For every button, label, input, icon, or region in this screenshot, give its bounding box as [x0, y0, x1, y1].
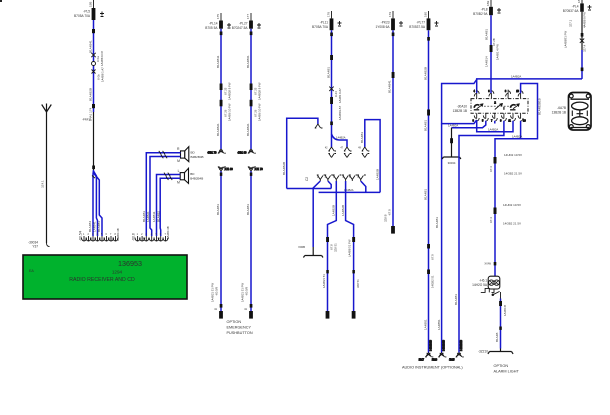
inline connector lamp column a: [494, 157, 497, 164]
svg-text:X71 00: X71 00: [225, 167, 234, 171]
svg-text:1A4B4 4B: 1A4B4 4B: [116, 228, 120, 241]
svg-text:13B2B 1B: 13B2B 1B: [552, 111, 566, 115]
node 30034 antenna pin: [28, 241, 49, 249]
svg-text:1A4B6 10 PW: 1A4B6 10 PW: [257, 103, 261, 121]
inline connector column 6 b: [427, 270, 430, 275]
svg-text:OPTION: OPTION: [227, 320, 242, 324]
connector PL27 top of column 3: [232, 13, 261, 30]
inline connector speaker L wires: [164, 173, 172, 180]
wire jumper to pin 347: [332, 134, 348, 147]
svg-text:14GB2 21 5V: 14GB2 21 5V: [504, 172, 522, 176]
svg-text:B1A4B1: B1A4B1: [246, 204, 250, 215]
tick column 2: [220, 32, 223, 36]
speaker L: [177, 168, 203, 184]
svg-text:B1A4B2: B1A4B2: [156, 211, 160, 222]
antenna W1: [42, 104, 52, 113]
connector hook upper column 2: [207, 149, 225, 155]
inline connector column 7: [490, 45, 493, 52]
inline connector 2 column 1: [92, 104, 95, 108]
inline connector pin3 branch: [326, 237, 329, 242]
inline connector column 1: [92, 29, 95, 33]
svg-text:14B2B1B: 14B2B1B: [441, 340, 445, 351]
svg-text:1A4B21 51 PW: 1A4B21 51 PW: [240, 283, 244, 302]
inline connector speaker R wires: [159, 151, 167, 158]
wire pin6 to horizontal2: [361, 181, 366, 192]
wire pin4 branch: [346, 181, 354, 311]
svg-text:B4B2B4B: B4B2B4B: [191, 155, 204, 159]
svg-text:B1A4B1: B1A4B1: [423, 120, 427, 131]
svg-text:B4B2B4B: B4B2B4B: [190, 177, 203, 181]
tick 2 column 4: [330, 122, 333, 126]
svg-text:1A4B21 51: 1A4B21 51: [322, 274, 326, 288]
svg-text:B1A4B41: B1A4B41: [89, 40, 93, 53]
ground 3Z210: [478, 349, 513, 354]
relay upper pin 4: [474, 90, 480, 99]
svg-text:1A4B28 9 PW: 1A4B28 9 PW: [227, 82, 231, 100]
junction tick column 1: [92, 166, 95, 170]
svg-text:1A4B4 4B: 1A4B4 4B: [166, 226, 170, 239]
svg-text:-PL14: -PL14: [209, 22, 218, 26]
svg-text:1A4B2B: 1A4B2B: [332, 205, 336, 216]
end connector pin3 branch: [326, 311, 330, 319]
wire column 4: [331, 30, 333, 147]
svg-text:-X0.8: -X0.8: [132, 233, 136, 241]
svg-text:X7.3: X7.3: [489, 166, 493, 172]
tick column 3: [250, 32, 253, 36]
svg-text:JB17: JB17: [419, 359, 425, 362]
ground 30034 right: [442, 157, 461, 165]
svg-text:-PL11: -PL11: [320, 21, 328, 25]
svg-text:L: L: [178, 169, 180, 173]
svg-text:B1A4B1: B1A4B1: [360, 132, 364, 143]
svg-text:C2: C2: [305, 177, 309, 181]
tick fan wires: [92, 176, 99, 180]
end connector column 5: [391, 226, 395, 234]
svg-text:1A4B19 A7: 1A4B19 A7: [338, 106, 342, 120]
svg-text:1A4B21: 1A4B21: [146, 211, 150, 222]
svg-text:X7.4: X7.4: [489, 217, 493, 223]
wire horizontal 1: [287, 188, 332, 190]
svg-text:1B7: 1B7: [577, 0, 581, 3]
svg-text:3Z7.4: 3Z7.4: [582, 44, 586, 52]
svg-text:3Z7.1: 3Z7.1: [568, 19, 572, 27]
wire column 1 upper: [93, 20, 95, 112]
inline connector column 6 top: [427, 110, 430, 116]
relay switch right: [510, 104, 519, 110]
lamp H6.1: [472, 276, 500, 289]
inline connector column 5: [392, 72, 395, 78]
wire column 5: [392, 30, 394, 226]
svg-text:B1A4B2B1B: B1A4B2B1B: [538, 98, 542, 115]
connector hook pair right: [362, 147, 370, 158]
svg-text:179: 179: [388, 12, 392, 17]
svg-text:14B2B1B: 14B2B1B: [459, 340, 463, 351]
svg-text:136953: 136953: [118, 259, 142, 268]
car icon 6A7B: [552, 93, 591, 131]
svg-text:1A4B2B: 1A4B2B: [341, 205, 345, 216]
wire column 1 lower black: [93, 112, 95, 170]
inline connector column 4 b: [330, 97, 333, 104]
svg-text:EA: EA: [29, 269, 34, 273]
wire right inverted U: [365, 120, 380, 193]
svg-text:1A4B11: 1A4B11: [152, 211, 156, 222]
wire speaker R -: [150, 157, 181, 237]
svg-text:1A4B4 B: 1A4B4 B: [503, 305, 507, 316]
connector hook upper column 3: [237, 149, 255, 155]
tick below hook column 3: [250, 173, 253, 176]
splice X column 1: [91, 53, 95, 57]
wire column 2 lower: [220, 171, 222, 311]
radio receiver box 136953: [23, 255, 187, 299]
caption option emergency pushbutton: [227, 320, 253, 335]
relay lower pin 3: [473, 113, 480, 122]
svg-text:180: 180: [424, 12, 428, 17]
svg-text:1A4B8 9 F8: 1A4B8 9 F8: [100, 51, 104, 66]
connector hook pair jumper: [344, 147, 352, 158]
wire column 8 lower blue: [581, 50, 583, 79]
svg-text:3Z8 51: 3Z8 51: [356, 279, 360, 288]
svg-text:OPTION: OPTION: [494, 364, 509, 368]
svg-text:B705A 70A: B705A 70A: [74, 14, 91, 18]
caption option alarm light: [494, 364, 520, 374]
connector row X1 pins: [317, 175, 366, 181]
svg-text:-6A7B: -6A7B: [557, 106, 566, 110]
svg-text:B1A4B11: B1A4B11: [216, 55, 220, 68]
svg-text:1B2: 1B2: [486, 0, 490, 6]
svg-text:B70537.5A: B70537.5A: [409, 25, 426, 29]
svg-text:B1A4B1: B1A4B1: [142, 211, 146, 222]
svg-text:1A4B1 9 A7: 1A4B1 9 A7: [338, 88, 342, 103]
hook audio wire 1: [419, 340, 434, 362]
wire column 3 lower: [250, 171, 252, 311]
svg-text:14UD2 10.5V: 14UD2 10.5V: [503, 203, 521, 207]
svg-text:4A4B8 9 PW: 4A4B8 9 PW: [582, 12, 586, 28]
svg-text:-X01 00: -X01 00: [237, 151, 247, 155]
wire column 2 upper: [220, 29, 222, 149]
svg-text:1A4B28 9 PW: 1A4B28 9 PW: [257, 82, 261, 100]
svg-text:1A4B21 51 PW: 1A4B21 51 PW: [210, 283, 214, 302]
corner mark: [0, 0, 2, 2]
speaker R: [177, 147, 213, 163]
relay linkage dash: [484, 105, 512, 107]
svg-text:-PRF1: -PRF1: [82, 118, 91, 122]
wire fan 2 to pin 4: [94, 171, 98, 236]
svg-text:-PL77: -PL77: [416, 21, 425, 25]
svg-text:14H2O 5A: 14H2O 5A: [472, 283, 488, 287]
svg-text:14UD2 10.5V: 14UD2 10.5V: [504, 153, 522, 157]
inline connector column 4 a: [330, 55, 333, 60]
wire left loop: [442, 80, 477, 124]
svg-text:13B2B 1B: 13B2B 1B: [453, 109, 467, 113]
splice X column 8: [580, 39, 584, 43]
svg-text:X7.9: X7.9: [431, 254, 435, 260]
relay upper pin 10: [516, 90, 523, 99]
svg-text:175: 175: [216, 14, 220, 19]
svg-text:-PL27: -PL27: [239, 22, 248, 26]
inline connector column 6 a: [427, 244, 430, 249]
ground 30034 center: [298, 245, 323, 258]
relay upper pin 8: [505, 90, 511, 99]
svg-text:1A4B6 10 PW: 1A4B6 10 PW: [227, 103, 231, 121]
wire fan 3 to pin 5: [94, 173, 103, 236]
svg-text:B1A4B21: B1A4B21: [246, 123, 250, 136]
svg-text:B70B2 9A: B70B2 9A: [473, 12, 488, 16]
svg-text:RADIO RECEIVER AND CD: RADIO RECEIVER AND CD: [69, 277, 135, 283]
svg-text:-H6.1: -H6.1: [479, 279, 487, 283]
end connector column 3: [249, 311, 253, 319]
svg-text:B1A4B1: B1A4B1: [97, 221, 101, 232]
tick 2 column 3: [250, 304, 253, 308]
svg-text:B1A4B2B: B1A4B2B: [89, 88, 93, 101]
connector hook lower column 2: [218, 167, 233, 171]
svg-text:B1A4B1: B1A4B1: [424, 189, 428, 200]
svg-text:1A4B2B: 1A4B2B: [375, 169, 379, 180]
tick 2 column 2: [220, 304, 223, 308]
svg-text:XX/W: XX/W: [484, 262, 491, 266]
svg-text:-3Z210: -3Z210: [478, 350, 488, 354]
svg-text:B705A 70A: B705A 70A: [312, 25, 329, 29]
inline connector lamp ground wire: [499, 301, 502, 306]
svg-text:M: M: [177, 181, 180, 185]
svg-text:1A4B41: 1A4B41: [92, 221, 96, 232]
svg-text:X00B: X00B: [298, 245, 305, 249]
relay block 30A10 dashed: [471, 99, 528, 114]
tick pin4 branch: [352, 270, 355, 273]
svg-text:-PL8: -PL8: [481, 8, 488, 12]
wire horizontal 2: [319, 191, 381, 193]
svg-text:1B5: 1B5: [89, 1, 93, 7]
svg-text:B1A4B21: B1A4B21: [216, 123, 220, 136]
svg-text:-X0.5/9: -X0.5/9: [244, 287, 248, 296]
tick below hook column 2: [220, 173, 223, 176]
svg-text:1A4B8 1 A7: 1A4B8 1 A7: [101, 67, 105, 82]
svg-text:B1A4B1: B1A4B1: [216, 204, 220, 215]
relay switch middle: [494, 101, 504, 110]
svg-text:-X0.5/4: -X0.5/4: [79, 230, 83, 241]
svg-text:X71 70: X71 70: [255, 167, 264, 171]
svg-text:B1A4B1: B1A4B1: [454, 294, 458, 305]
wire pin5 to ground: [452, 121, 486, 128]
wire column 9 continuation: [441, 124, 443, 353]
relay lower pin 11: [508, 113, 515, 122]
inline connector X7.25 b column 2: [220, 100, 223, 107]
splice X2 column 1: [92, 70, 96, 74]
svg-text:B1A4B41: B1A4B41: [388, 80, 392, 93]
wire left U-shape: [287, 118, 318, 188]
wire column 6: [428, 30, 430, 352]
wire pin10 right link: [495, 84, 538, 161]
wire antenna lead: [46, 112, 48, 243]
tick lamp column: [494, 262, 497, 265]
tick column 5: [392, 33, 395, 37]
wire column 8 upper black: [581, 12, 583, 50]
tick 2 column 8: [581, 68, 584, 72]
svg-text:177: 177: [246, 14, 250, 19]
svg-text:14GB2 21 5V: 14GB2 21 5V: [503, 222, 521, 226]
svg-text:B70537.6A: B70537.6A: [563, 9, 580, 13]
inline connector ground drop: [450, 138, 453, 143]
svg-text:1Y008 6A: 1Y008 6A: [375, 25, 390, 29]
svg-text:PUSHBUTTON: PUSHBUTTON: [227, 331, 253, 335]
relay lower pin 13: [518, 113, 526, 122]
svg-text:1A4B51: 1A4B51: [424, 319, 428, 330]
svg-text:-X0.5/9: -X0.5/9: [214, 287, 218, 296]
connector PL77 top of column 6: [409, 11, 438, 30]
pin numbers X1: [317, 176, 359, 179]
svg-text:AUDIO INSTRUMENT (OPTIONAL): AUDIO INSTRUMENT (OPTIONAL): [402, 366, 463, 370]
tick pin3 branch: [326, 270, 329, 273]
tick column 8: [581, 33, 584, 37]
svg-text:B1A4B1: B1A4B1: [327, 67, 331, 78]
svg-text:178: 178: [327, 12, 331, 17]
svg-text:B70247.5A: B70247.5A: [232, 26, 249, 30]
svg-text:1A4B2A: 1A4B2A: [488, 128, 498, 132]
connector PK23 top of column 5: [375, 11, 403, 30]
hook audio wire 2: [432, 340, 447, 362]
tick lamp ground wire: [499, 327, 502, 330]
svg-text:M: M: [177, 159, 180, 163]
svg-text:3Z4.1: 3Z4.1: [41, 180, 45, 188]
relay lower pin 5: [482, 113, 488, 122]
tick column 6: [427, 37, 430, 41]
relay switch left: [474, 104, 483, 110]
connector PL11 top of column 4: [312, 11, 341, 30]
svg-text:14GB2 51: 14GB2 51: [431, 275, 435, 288]
wire lamp to ground: [500, 299, 502, 349]
svg-text:B1A4B: B1A4B: [495, 333, 499, 342]
connector PL5 top of column 1: [74, 0, 104, 20]
inline connector pin4 branch: [352, 237, 355, 242]
svg-text:B705 5A: B705 5A: [205, 26, 218, 30]
switch below lamp: [481, 288, 501, 298]
svg-text:Y37: Y37: [32, 245, 38, 249]
svg-text:1A4B51: 1A4B51: [437, 319, 441, 330]
svg-text:-X7.9: -X7.9: [387, 209, 391, 216]
connector hook pair column 4: [328, 147, 336, 158]
svg-text:14B2B1B: 14B2B1B: [428, 340, 432, 351]
wire pin11 horizontal: [477, 120, 513, 132]
wire speaker L +: [157, 175, 181, 237]
connector row X0.5/4: [81, 236, 118, 241]
wire ground drop 30034: [451, 128, 453, 157]
svg-text:LA4B8 51 PW: LA4B8 51 PW: [348, 239, 352, 257]
svg-text:3Z8 B: 3Z8 B: [383, 214, 387, 222]
inline connector X7.25 a column 3: [250, 84, 253, 91]
svg-text:ALARM LIGHT: ALARM LIGHT: [494, 370, 520, 374]
relay lower pin 7: [491, 113, 497, 122]
wire lamp column: [494, 160, 496, 276]
wire pin1 to ground drop: [313, 181, 320, 247]
svg-text:JB25: JB25: [449, 359, 455, 362]
svg-text:B1A4B2B: B1A4B2B: [424, 67, 428, 80]
svg-text:EMERGENCY: EMERGENCY: [227, 326, 252, 330]
end connector pin4 branch: [352, 311, 356, 319]
svg-text:-PL4: -PL4: [572, 5, 579, 9]
hook audio wire 3: [449, 340, 464, 362]
pin hook left U: [315, 124, 323, 128]
svg-text:1A4B14: 1A4B14: [484, 56, 488, 67]
relay lower pin 9: [500, 113, 506, 122]
wire bus 1A4B2A: [477, 79, 582, 93]
end connector column 2: [219, 311, 223, 319]
wire pin13 to link: [520, 121, 522, 139]
wire pin9 to audio column: [459, 121, 504, 353]
pin numbers row A: [83, 233, 117, 236]
wire speaker R +: [146, 153, 180, 236]
wire pin3 branch: [328, 181, 337, 311]
svg-text:1294: 1294: [112, 270, 123, 275]
tick column 4: [330, 33, 333, 37]
inline connector X7.25 b column 3: [250, 100, 253, 107]
pin numbers row B: [137, 233, 167, 236]
junction circle column 1: [92, 62, 96, 66]
svg-text:B1A4B1: B1A4B1: [435, 217, 439, 228]
wire speaker L -: [160, 178, 180, 236]
wire column 7: [490, 15, 492, 93]
svg-text:1A4B2A: 1A4B2A: [336, 136, 346, 140]
wire column 3 upper: [250, 29, 252, 149]
connector PL14 top of column 2: [205, 13, 231, 30]
svg-text:1A4B2A: 1A4B2A: [448, 124, 458, 128]
inline connector X7.25 a column 2: [220, 84, 223, 91]
connector PL8 top of column 7: [473, 0, 501, 16]
connector row X0.8: [135, 236, 168, 241]
svg-text:30034: 30034: [448, 161, 456, 165]
svg-text:-30A10: -30A10: [457, 105, 468, 109]
wire pin7 stub: [494, 121, 496, 124]
svg-text:B1A4B2B: B1A4B2B: [282, 162, 286, 175]
svg-text:B1A4B1: B1A4B1: [484, 29, 488, 40]
wire fan 1 to pin 3: [92, 170, 95, 236]
svg-text:B1A4B4: B1A4B4: [88, 221, 92, 232]
relay upper pin 6: [488, 90, 494, 99]
inline connector lamp column b: [494, 208, 497, 215]
svg-text:1A4B2A: 1A4B2A: [511, 75, 521, 79]
connector PL4 top of column 8: [563, 0, 592, 13]
svg-text:3Z8 51: 3Z8 51: [334, 243, 338, 252]
connector hook lower column 3: [248, 167, 263, 171]
wire pin2 to horizontal1: [328, 181, 331, 189]
svg-text:B1A4B61: B1A4B61: [246, 55, 250, 68]
svg-text:-PK23: -PK23: [381, 21, 390, 25]
svg-text:-X01 70: -X01 70: [207, 151, 217, 155]
svg-text:JB23: JB23: [432, 359, 438, 362]
svg-text:-PL5: -PL5: [83, 10, 90, 14]
svg-text:1A4B1 4 PW: 1A4B1 4 PW: [495, 44, 499, 60]
svg-text:1A4B2A: 1A4B2A: [512, 135, 522, 139]
splice X column 4: [329, 87, 333, 91]
svg-text:LA4B8S1 PW: LA4B8S1 PW: [564, 31, 568, 48]
